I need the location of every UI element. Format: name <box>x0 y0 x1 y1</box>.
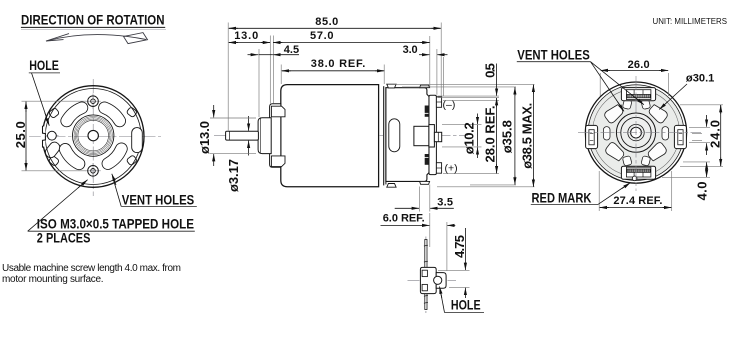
dim 4.5 <box>248 44 300 56</box>
crimp notch top <box>387 84 396 88</box>
svg-text:3.5: 3.5 <box>437 196 453 208</box>
rear small vent S-left <box>622 156 632 166</box>
dim 24.0 rear <box>680 105 723 167</box>
detail thin plate edge <box>424 240 428 310</box>
front rim notch 8 o'clock <box>48 155 59 166</box>
detail bracket body <box>420 267 436 293</box>
rear rim <box>585 82 686 183</box>
label HOLE front <box>29 57 60 126</box>
svg-text:RED MARK: RED MARK <box>532 189 592 205</box>
detail bracket slots <box>422 270 427 276</box>
svg-text:HOLE: HOLE <box>29 57 59 73</box>
front rim notch 10 o'clock <box>48 107 59 118</box>
svg-text:ø30.1: ø30.1 <box>686 73 715 85</box>
front vent slot east <box>132 128 143 153</box>
dim 57.0 <box>273 30 430 42</box>
dim 25.0 front <box>13 101 86 171</box>
dim boss dia 13.0 <box>197 105 256 166</box>
detail view centerlines <box>425 237 427 314</box>
label DIRECTION OF ROTATION <box>21 12 165 28</box>
label RED MARK rear <box>531 183 631 206</box>
dim 27.4 REF. rear <box>599 171 672 211</box>
shaft <box>226 131 259 140</box>
svg-text:ø3.17: ø3.17 <box>226 159 241 192</box>
dim dia 38.5 MAX. <box>519 85 534 187</box>
label ISO M3.0x0.5 TAPPED HOLE 2 PLACES <box>28 180 195 246</box>
front view centerlines <box>29 79 161 196</box>
side view centerline <box>214 135 468 137</box>
svg-text:4.5: 4.5 <box>284 44 299 56</box>
motor can body <box>281 85 379 187</box>
endbell housing <box>386 88 429 182</box>
svg-text:Usable machine screw length 4.: Usable machine screw length 4.0 max. fro… <box>2 263 181 274</box>
plate tab top <box>271 106 285 117</box>
tapped hole top <box>85 94 101 110</box>
svg-text:4.0: 4.0 <box>695 182 710 201</box>
detail hole <box>434 276 442 284</box>
svg-text:28.0 REF.: 28.0 REF. <box>483 106 498 163</box>
svg-text:26.0: 26.0 <box>628 59 650 71</box>
rear left tab <box>586 125 598 148</box>
rotation arrow arc <box>46 33 148 44</box>
dim 28.0 REF. <box>483 98 498 173</box>
label VENT HOLES rear <box>517 47 644 112</box>
rear tab dim arrows <box>689 115 710 155</box>
plate tab bottom <box>271 156 285 167</box>
dim 26.0 rear <box>600 59 668 96</box>
front shaft hole <box>88 130 98 140</box>
rear vent hole NW <box>603 103 625 124</box>
svg-text:25.0: 25.0 <box>13 121 28 148</box>
svg-text:HOLE: HOLE <box>451 297 481 313</box>
dim shaft dia 3.17 <box>226 116 249 192</box>
front vent slot upper-left <box>67 108 82 121</box>
shaft boss <box>258 118 271 154</box>
svg-text:2 PLACES: 2 PLACES <box>37 229 91 245</box>
rear shaft stub <box>434 132 441 141</box>
svg-text:VENT HOLES: VENT HOLES <box>122 192 194 208</box>
front left flat notch <box>41 126 46 148</box>
svg-text:VENT HOLES: VENT HOLES <box>517 47 590 63</box>
rear small vent N-right <box>641 99 651 109</box>
endbell bottom tab <box>420 181 430 184</box>
dim 3.0 <box>403 44 448 56</box>
extension lines right side <box>388 84 535 186</box>
front vent slot west <box>43 140 62 160</box>
rear hub <box>616 113 655 152</box>
svg-text:UNIT: MILLIMETERS: UNIT: MILLIMETERS <box>653 17 728 26</box>
hole left (HOLE) <box>46 131 59 140</box>
front vent slot upper-right <box>105 108 120 121</box>
svg-text:ø35.8: ø35.8 <box>499 120 514 153</box>
rear bottom tab red mark <box>621 166 655 181</box>
svg-text:57.0: 57.0 <box>310 30 334 42</box>
svg-text:85.0: 85.0 <box>315 16 338 28</box>
extension lines top <box>228 23 443 131</box>
dim 38.0 REF. <box>282 58 385 71</box>
dim 6.0 REF. <box>381 213 456 271</box>
rear top tab brush cap <box>621 88 655 101</box>
dim 0.5 <box>483 63 498 96</box>
rear view face <box>588 85 684 181</box>
can end double line <box>383 86 385 185</box>
svg-text:13.0: 13.0 <box>234 30 258 42</box>
dim 4.75 <box>438 228 470 298</box>
dim 4.0 rear <box>662 162 710 201</box>
dim 3.5 <box>395 185 454 212</box>
endbell top tab <box>420 85 430 88</box>
dim dia 10.2 <box>462 114 478 159</box>
svg-text:27.4 REF.: 27.4 REF. <box>613 195 662 207</box>
front center hub knurled boss <box>73 115 114 156</box>
svg-text:3.0: 3.0 <box>403 44 418 56</box>
bearing plate <box>429 125 435 147</box>
dim dia 35.8 <box>499 87 515 184</box>
svg-text:ø10.2: ø10.2 <box>462 122 477 154</box>
endbell oval vent <box>389 119 400 152</box>
rear centerlines <box>578 76 701 191</box>
svg-text:4.75: 4.75 <box>452 235 467 258</box>
rear vent hole SW <box>604 141 626 162</box>
svg-text:motor mounting surface.: motor mounting surface. <box>2 274 104 285</box>
svg-text:24.0: 24.0 <box>708 120 723 148</box>
svg-text:(–): (–) <box>443 99 456 111</box>
detail ear <box>436 273 446 289</box>
dim 13.0 <box>229 30 270 42</box>
rear small vent N-left <box>622 99 632 109</box>
terminal cap plate <box>429 95 436 174</box>
svg-text:ø13.0: ø13.0 <box>197 121 212 154</box>
front rim notch 2 o'clock <box>126 107 137 118</box>
svg-text:6.0 REF.: 6.0 REF. <box>383 213 425 225</box>
front vent slot lower-right <box>108 149 122 164</box>
svg-text:(+): (+) <box>445 163 458 175</box>
rear small vent S-right <box>641 156 651 166</box>
rear side slot W <box>603 127 610 140</box>
front rim notch 4 o'clock <box>126 155 137 166</box>
bearing boss rear <box>414 126 429 145</box>
label HOLE detail <box>440 287 485 313</box>
front mounting plate <box>270 104 281 168</box>
svg-text:0.5: 0.5 <box>483 63 498 78</box>
rear vent hole SE <box>646 141 668 162</box>
rear vent hole NE <box>647 103 669 124</box>
tapped hole bottom <box>85 163 101 179</box>
svg-text:38.0 REF.: 38.0 REF. <box>311 58 366 70</box>
label dia 30.1 rear <box>659 73 714 110</box>
endbell edge bumps <box>425 106 429 165</box>
terminal (-) <box>436 97 441 108</box>
label VENT HOLES front <box>112 174 197 208</box>
svg-text:DIRECTION OF ROTATION: DIRECTION OF ROTATION <box>21 12 165 28</box>
terminal (+) <box>436 163 441 174</box>
front view outer rim <box>42 86 144 188</box>
front vent slot lower-left <box>65 149 79 164</box>
crimp notch bottom <box>387 184 396 188</box>
rear side slot E <box>662 127 669 140</box>
rear right tab <box>674 125 686 148</box>
dim 85.0 <box>229 16 441 28</box>
svg-text:ø38.5 MAX.: ø38.5 MAX. <box>519 103 534 169</box>
